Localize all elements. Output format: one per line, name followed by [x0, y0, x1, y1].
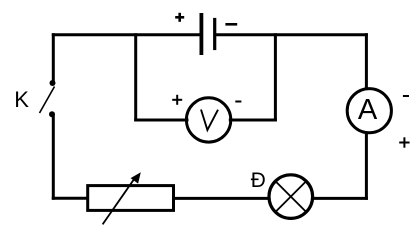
ammeter minus label: [403, 95, 409, 97]
voltmeter V letter: [201, 110, 218, 131]
voltmeter minus label: [235, 101, 241, 103]
wire left vertical lower: [52, 114, 55, 200]
wire voltmeter branch right vertical: [274, 33, 277, 121]
wire top-left horizontal: [52, 33, 202, 36]
wire lamp to right corner: [311, 197, 368, 200]
ammeter A1 circle: [347, 89, 391, 133]
wire top-right horizontal: [215, 33, 368, 36]
svg-text:Đ: Đ: [251, 169, 266, 192]
svg-text:K: K: [14, 87, 29, 112]
rheostat arrow shaft: [103, 178, 135, 225]
lamp D circle: [269, 175, 313, 219]
wire left vertical upper: [52, 33, 55, 82]
wire rheostat to lamp: [173, 197, 270, 200]
ammeter plus label: [399, 137, 409, 147]
rheostat arrow head: [131, 172, 141, 183]
lamp X diagonal 2: [276, 181, 306, 211]
svg-text:A: A: [358, 94, 378, 126]
wire voltmeter branch left vertical: [134, 33, 137, 121]
wire right vertical lower: [365, 132, 368, 199]
switch K blade: [40, 87, 55, 114]
switch K bottom contact node: [49, 111, 55, 117]
wire right vertical upper: [365, 33, 368, 89]
switch K top contact node: [50, 80, 56, 86]
wire bottom left horizontal: [52, 197, 88, 200]
rheostat R1 body: [88, 186, 174, 211]
wire voltmeter branch right horizontal: [229, 119, 277, 122]
voltmeter plus label: [172, 95, 182, 105]
battery B1 negative plate: [213, 18, 216, 50]
battery plus label: [175, 13, 184, 22]
battery B1 positive plate: [199, 13, 203, 55]
battery minus label: [225, 23, 237, 26]
voltmeter V1 circle: [186, 98, 230, 142]
wire voltmeter branch left horizontal: [134, 119, 188, 122]
lamp X diagonal 1: [276, 181, 306, 211]
